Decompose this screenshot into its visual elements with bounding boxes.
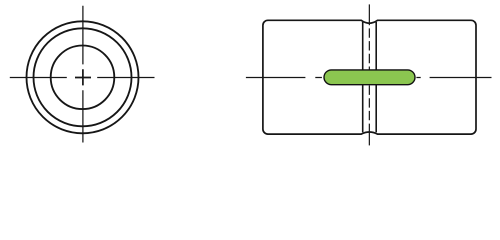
front view center mark cross <box>75 69 91 85</box>
seam center line solid top <box>368 4 370 25</box>
side view body outline <box>263 20 476 134</box>
seam center line dashed upper <box>368 28 370 69</box>
seam center line dashed lower <box>368 86 370 132</box>
seam center line solid bottom <box>368 131 370 145</box>
seam line left <box>362 22 364 132</box>
front view bore circle <box>51 46 115 110</box>
green slot <box>324 70 415 85</box>
front view horizontal centerline <box>10 77 155 79</box>
seam line right <box>375 22 377 132</box>
side view horizontal centerline <box>246 77 492 79</box>
front view outer circle <box>27 21 139 133</box>
front view vertical centerline <box>82 6 84 143</box>
front view chamfer circle <box>34 28 132 126</box>
